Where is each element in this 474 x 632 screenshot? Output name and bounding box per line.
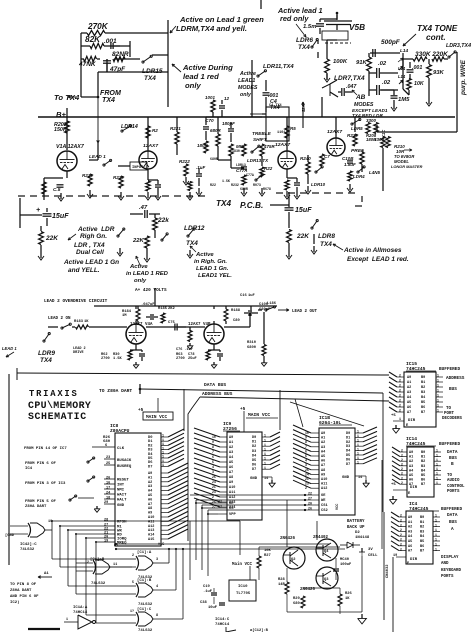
svg-text:A3: A3 xyxy=(407,391,411,395)
svg-text:8: 8 xyxy=(156,614,158,618)
svg-text:1: 1 xyxy=(436,472,438,476)
svg-text:DRIVE: DRIVE xyxy=(73,351,84,355)
capacitor 15uF right xyxy=(285,207,294,209)
svg-text:82K: 82K xyxy=(85,35,101,44)
tube V4B lead2 xyxy=(204,324,224,344)
svg-text:A6: A6 xyxy=(409,479,413,483)
svg-text:16: 16 xyxy=(106,482,110,486)
svg-text:2K2: 2K2 xyxy=(168,307,175,311)
capacitor .047 xyxy=(341,88,343,96)
svg-text:CELL: CELL xyxy=(368,554,378,558)
svg-text:1: 1 xyxy=(399,417,401,421)
svg-text:26: 26 xyxy=(106,477,110,481)
svg-text:82NR: 82NR xyxy=(112,51,129,58)
svg-text:red only: red only xyxy=(280,14,309,23)
wire top stub x261 xyxy=(260,0,262,9)
svg-text:14: 14 xyxy=(358,476,362,480)
cluster right of tube3 xyxy=(306,162,310,174)
wire lead2 main xyxy=(48,326,58,328)
svg-text:100K: 100K xyxy=(333,59,348,65)
svg-text:.047: .047 xyxy=(346,84,357,90)
resistor 82NR xyxy=(113,56,125,61)
svg-text:1001: 1001 xyxy=(205,95,215,100)
svg-text:VPP: VPP xyxy=(229,513,236,517)
svg-text:2: 2 xyxy=(399,394,401,398)
svg-text:C19: C19 xyxy=(203,585,210,589)
svg-text:Main VCC: Main VCC xyxy=(232,562,252,567)
svg-text:1: 1 xyxy=(264,434,266,438)
capacitor .02 b xyxy=(376,85,378,95)
svg-text:5: 5 xyxy=(212,460,214,464)
svg-text:TX4 RED LDR: TX4 RED LDR xyxy=(352,113,383,118)
wedge IC14 xyxy=(392,447,400,452)
svg-text:B1: B1 xyxy=(421,456,425,460)
wire right vertical feedback xyxy=(167,20,169,107)
svg-text:KEYBOARD: KEYBOARD xyxy=(441,569,461,573)
svg-text:A4: A4 xyxy=(407,396,411,400)
svg-text:[C1]:B: [C1]:B xyxy=(90,557,105,562)
svg-text:CS: CS xyxy=(229,507,234,511)
svg-text:A9: A9 xyxy=(229,481,233,485)
ground tone b xyxy=(428,98,430,104)
svg-text:TX4: TX4 xyxy=(40,357,52,364)
svg-text:TO: TO xyxy=(446,407,451,411)
svg-text:LDR12: LDR12 xyxy=(184,225,205,232)
svg-text:R232: R232 xyxy=(231,183,239,187)
svg-text:1: 1 xyxy=(66,617,68,621)
svg-text:3V: 3V xyxy=(368,548,373,552)
svg-text:2: 2 xyxy=(400,543,402,547)
svg-text:R230: R230 xyxy=(347,133,358,138)
svg-text:[C1]:A: [C1]:A xyxy=(137,550,152,555)
svg-text:2: 2 xyxy=(399,404,401,408)
svg-text:a[C12]:B: a[C12]:B xyxy=(250,628,269,632)
svg-text:DIR: DIR xyxy=(410,486,418,490)
svg-text:8: 8 xyxy=(212,445,214,449)
svg-text:A9: A9 xyxy=(321,473,325,477)
battery 3V CELL xyxy=(361,548,363,552)
svg-text:D2: D2 xyxy=(355,531,360,535)
svg-text:D0: D0 xyxy=(346,432,350,436)
vertical bus right1 xyxy=(383,512,385,620)
capacitor C75 mid xyxy=(174,324,176,331)
svg-text:D6: D6 xyxy=(346,458,350,462)
wires battery net xyxy=(259,546,340,548)
svg-text:6800: 6800 xyxy=(247,346,257,350)
svg-text:IC2): IC2) xyxy=(10,600,20,605)
svg-text:RESET: RESET xyxy=(117,479,129,483)
svg-text:18: 18 xyxy=(106,497,110,501)
ram pins left xyxy=(311,432,319,434)
svg-text:R678: R678 xyxy=(263,187,271,191)
svg-text:GND: GND xyxy=(342,476,350,480)
svg-text:L14: L14 xyxy=(400,48,408,53)
svg-text:26: 26 xyxy=(308,507,312,511)
svg-text:V5B: V5B xyxy=(349,23,365,32)
svg-text:1: 1 xyxy=(437,394,439,398)
svg-text:A1: A1 xyxy=(148,476,152,480)
svg-text:A10: A10 xyxy=(148,516,154,520)
svg-text:DIR: DIR xyxy=(408,419,416,423)
svg-text:27: 27 xyxy=(308,497,312,501)
svg-text:1M5: 1M5 xyxy=(398,97,410,103)
svg-text:Active: Active xyxy=(195,252,214,258)
svg-text:22k: 22k xyxy=(157,217,169,224)
ground dual xyxy=(119,248,121,254)
svg-text:B1: B1 xyxy=(421,381,425,385)
svg-text:680: 680 xyxy=(293,602,300,606)
resistor 22K right xyxy=(287,230,292,243)
svg-text:19: 19 xyxy=(393,554,397,558)
svg-text:To TX4: To TX4 xyxy=(54,93,80,102)
svg-text:1: 1 xyxy=(357,434,359,438)
svg-text:93K: 93K xyxy=(433,70,445,76)
wires verticals mid xyxy=(168,549,170,563)
IC15 ground xyxy=(395,425,397,429)
svg-text:TX4: TX4 xyxy=(298,44,310,51)
ram pins right xyxy=(355,432,363,434)
svg-text:BUS: BUS xyxy=(449,456,457,461)
ram addr feed diagonal xyxy=(295,399,303,427)
svg-text:B3: B3 xyxy=(421,465,425,469)
LDR14 switch xyxy=(121,130,123,132)
svg-text:2: 2 xyxy=(400,538,402,542)
regulator IC10 TL7705 xyxy=(229,580,256,601)
svg-text:LDR5: LDR5 xyxy=(351,126,363,131)
svg-text:24: 24 xyxy=(106,492,110,496)
svg-text:2: 2 xyxy=(401,463,403,467)
svg-text:BUFFERED: BUFFERED xyxy=(441,507,462,512)
svg-text:A13: A13 xyxy=(148,529,154,533)
node cluster mid xyxy=(218,159,231,161)
svg-text:R29: R29 xyxy=(293,597,300,601)
cathode lead2 tube1 xyxy=(135,344,137,350)
resistor 93K tone xyxy=(427,65,432,78)
svg-text:Z80A DART: Z80A DART xyxy=(10,589,32,593)
svg-text:A7: A7 xyxy=(229,471,233,475)
svg-text:A: A xyxy=(451,527,454,532)
svg-text:PORT: PORT xyxy=(444,412,454,416)
wire purple bottom xyxy=(377,131,457,133)
svg-text:only: only xyxy=(185,81,201,90)
svg-text:A3: A3 xyxy=(408,530,412,534)
rom wedge right xyxy=(270,432,280,437)
wire left vertical feedback xyxy=(80,33,82,97)
svg-text:2700: 2700 xyxy=(101,357,110,361)
wedge IC4 xyxy=(391,512,399,517)
svg-text:A6: A6 xyxy=(407,406,411,410)
svg-text:Q3: Q3 xyxy=(324,578,329,582)
svg-text:LDR13: LDR13 xyxy=(236,163,246,167)
svg-text:LDR4: LDR4 xyxy=(353,174,365,179)
svg-text:19: 19 xyxy=(104,540,108,544)
resistor R202 plate xyxy=(65,121,70,133)
svg-text:A11: A11 xyxy=(229,491,235,495)
svg-text:D1: D1 xyxy=(252,441,256,445)
svg-text:1: 1 xyxy=(437,384,439,388)
main rail top xyxy=(38,116,455,118)
svg-text:A12: A12 xyxy=(229,496,235,500)
svg-text:9: 9 xyxy=(212,440,214,444)
svg-text:3300: 3300 xyxy=(366,118,376,123)
svg-text:2: 2 xyxy=(401,449,403,453)
svg-text:29: 29 xyxy=(104,501,108,505)
svg-text:3: 3 xyxy=(212,470,214,474)
svg-text:LDR13,TX: LDR13,TX xyxy=(247,158,269,163)
svg-text:[C1]:C: [C1]:C xyxy=(137,607,152,612)
wire plate drops xyxy=(135,306,137,309)
svg-text:L14: L14 xyxy=(398,66,406,71)
arrow cluster x303 xyxy=(302,102,304,128)
svg-text:R188: R188 xyxy=(231,309,241,313)
svg-text:AND: AND xyxy=(441,562,449,566)
svg-text:SCHEMATIC: SCHEMATIC xyxy=(28,411,87,422)
svg-text:A6: A6 xyxy=(148,498,152,502)
svg-text:2: 2 xyxy=(399,379,401,383)
svg-text:INT: INT xyxy=(117,484,125,488)
svg-text:in LEAD 1 RED: in LEAD 1 RED xyxy=(126,271,169,277)
wire cross xyxy=(98,71,168,73)
wire out riser xyxy=(249,313,251,327)
svg-text:TL7705: TL7705 xyxy=(236,592,251,596)
svg-text:Active: Active xyxy=(129,264,148,270)
svg-text:BATTERY: BATTERY xyxy=(347,520,365,524)
svg-text:15uF: 15uF xyxy=(52,212,69,220)
data bus wire xyxy=(140,389,383,393)
svg-text:A4: A4 xyxy=(321,450,325,454)
wedge IC15 xyxy=(389,372,397,377)
resistor 10K tone xyxy=(407,79,411,90)
svg-text:A12: A12 xyxy=(321,487,327,491)
svg-text:R220: R220 xyxy=(113,175,124,180)
wire tube1 cathode xyxy=(44,177,63,179)
svg-text:A11: A11 xyxy=(321,483,327,487)
dashed TX4 PCB boundary xyxy=(18,195,25,197)
svg-text:10: 10 xyxy=(48,520,52,524)
LDR15 switch xyxy=(142,61,144,63)
svg-text:11: 11 xyxy=(113,563,117,567)
resistor R6 xyxy=(188,182,192,191)
svg-text:2: 2 xyxy=(400,519,402,523)
svg-text:LDR3,TX4: LDR3,TX4 xyxy=(446,43,471,49)
svg-text:2: 2 xyxy=(401,467,403,471)
svg-text:.1uF: .1uF xyxy=(196,165,205,170)
bus feed IC4 xyxy=(381,460,383,549)
svg-text:HALT: HALT xyxy=(117,499,127,503)
svg-text:D0: D0 xyxy=(252,436,256,440)
svg-text:.02: .02 xyxy=(382,80,391,86)
svg-text:B3: B3 xyxy=(421,391,425,395)
tube V2B 12AX7 xyxy=(327,138,345,156)
svg-text:2: 2 xyxy=(400,528,402,532)
svg-text:A0: A0 xyxy=(229,436,233,440)
svg-text:.047uF: .047uF xyxy=(141,303,155,307)
svg-text:TX4: TX4 xyxy=(270,105,280,111)
svg-text:B0: B0 xyxy=(421,451,425,455)
svg-text:Active LEAD 1 Gn: Active LEAD 1 Gn xyxy=(63,259,119,266)
wire transistor to rail xyxy=(321,97,323,117)
svg-text:A5: A5 xyxy=(229,461,233,465)
svg-text:680R: 680R xyxy=(210,157,218,161)
svg-text:1: 1 xyxy=(264,457,266,461)
svg-text:AUDIO: AUDIO xyxy=(447,479,460,483)
svg-text:100uF: 100uF xyxy=(340,563,352,567)
svg-text:R2: R2 xyxy=(152,128,158,133)
svg-text:1: 1 xyxy=(435,533,437,537)
svg-text:Dual Cell: Dual Cell xyxy=(76,249,104,256)
svg-text:Z80A DART: Z80A DART xyxy=(25,505,47,509)
svg-text:LEAD1 YEL.: LEAD1 YEL. xyxy=(198,273,232,279)
svg-text:A7: A7 xyxy=(321,464,325,468)
svg-text:FROM PIN 3 OF IC3: FROM PIN 3 OF IC3 xyxy=(25,482,66,486)
purple wire vertical xyxy=(456,52,458,132)
LDR12 TX4 switch xyxy=(187,235,189,237)
svg-text:ADDRESS: ADDRESS xyxy=(446,376,465,381)
svg-text:2: 2 xyxy=(401,453,403,457)
svg-text:B4: B4 xyxy=(420,535,424,539)
svg-text:TX4: TX4 xyxy=(186,240,198,247)
ground tone a xyxy=(393,103,395,109)
svg-text:L14: L14 xyxy=(398,74,406,79)
svg-text:B7: B7 xyxy=(421,411,425,415)
svg-text:TO PIN 8 OF: TO PIN 8 OF xyxy=(10,583,37,587)
data bus vertical xyxy=(183,389,185,431)
svg-text:2: 2 xyxy=(399,384,401,388)
resistor 47NK xyxy=(84,56,97,61)
svg-text:IC42]:C: IC42]:C xyxy=(20,542,37,547)
vertical bus right2 xyxy=(392,557,394,632)
page border left xyxy=(8,374,10,565)
resistor plate2 xyxy=(146,126,150,138)
svg-text:Active in Allmoses: Active in Allmoses xyxy=(343,247,402,254)
ram wedge right xyxy=(363,427,377,433)
svg-text:LEAD 2 ON: LEAD 2 ON xyxy=(48,317,71,321)
svg-text:D7: D7 xyxy=(346,463,350,467)
resistor R310 xyxy=(262,345,266,356)
svg-text:LONGR MASTER: LONGR MASTER xyxy=(391,164,423,169)
rom data collector xyxy=(279,390,281,430)
svg-text:A4: A4 xyxy=(408,535,412,539)
svg-text:PORTS: PORTS xyxy=(441,575,454,579)
svg-text:B6: B6 xyxy=(421,406,425,410)
or gate column C xyxy=(138,612,153,626)
svg-text:LEAD1: LEAD1 xyxy=(238,78,255,84)
wires battery area top xyxy=(239,521,241,555)
svg-text:B0: B0 xyxy=(421,376,425,380)
svg-text:GND: GND xyxy=(250,477,258,481)
ground LDR8 xyxy=(313,246,315,252)
svg-text:A10: A10 xyxy=(229,486,235,490)
svg-text:WE: WE xyxy=(321,499,326,503)
LDR dual cell switch xyxy=(117,235,119,237)
ram wedge left xyxy=(293,425,311,433)
svg-text:LEAD 2 OVERDRIVE CIRCUIT: LEAD 2 OVERDRIVE CIRCUIT xyxy=(44,299,108,304)
svg-text:D2: D2 xyxy=(346,441,350,445)
svg-text:TO: TO xyxy=(447,474,452,478)
svg-text:2: 2 xyxy=(401,458,403,462)
LDR5 switch pair xyxy=(351,123,353,125)
svg-text:C38: C38 xyxy=(200,601,207,605)
svg-text:LDR , TX4: LDR , TX4 xyxy=(74,242,105,249)
cpu pins BUSACK BUSREQ xyxy=(104,458,115,460)
svg-text:91K: 91K xyxy=(356,60,368,66)
address bus wire xyxy=(200,397,389,401)
svg-text:CPU\MEMORY: CPU\MEMORY xyxy=(28,400,91,411)
svg-text:500pF: 500pF xyxy=(381,39,401,46)
svg-text:purp. WIRE: purp. WIRE xyxy=(460,59,467,96)
svg-text:B4: B4 xyxy=(421,469,425,473)
svg-text:C80: C80 xyxy=(233,319,240,323)
svg-text:1: 1 xyxy=(435,523,437,527)
svg-text:BACK UP: BACK UP xyxy=(347,526,365,530)
svg-text:4: 4 xyxy=(156,585,158,589)
cpu addr wedge xyxy=(168,463,188,473)
cpu pin GND29 xyxy=(104,503,115,505)
svg-text:Active During: Active During xyxy=(182,63,233,72)
svg-text:LDR10: LDR10 xyxy=(311,182,326,187)
svg-text:.001: .001 xyxy=(104,38,117,45)
svg-text:1: 1 xyxy=(436,449,438,453)
svg-text:C.5: C.5 xyxy=(53,187,61,192)
svg-text:DATA: DATA xyxy=(447,513,458,518)
svg-text:LDR11,TX4: LDR11,TX4 xyxy=(263,64,294,70)
PRE5 cluster xyxy=(354,117,356,132)
svg-text:22K: 22K xyxy=(45,235,59,242)
svg-text:A1: A1 xyxy=(407,381,411,385)
capacitor .02 a xyxy=(376,68,378,78)
svg-text:2: 2 xyxy=(400,547,402,551)
svg-text:TRIAXIS: TRIAXIS xyxy=(29,389,79,399)
svg-text:2: 2 xyxy=(400,523,402,527)
svg-text:D4: D4 xyxy=(346,450,350,454)
svg-text:A3: A3 xyxy=(229,451,233,455)
wire A+ vertical xyxy=(154,288,156,306)
svg-text:2: 2 xyxy=(399,374,401,378)
svg-text:R28: R28 xyxy=(278,578,285,582)
svg-text:1: 1 xyxy=(437,399,439,403)
svg-text:Active: Active xyxy=(239,71,256,77)
LDR mid switch xyxy=(161,239,163,241)
svg-text:2: 2 xyxy=(399,409,401,413)
svg-text:R22: R22 xyxy=(264,166,273,171)
svg-text:LDR14: LDR14 xyxy=(121,124,138,130)
svg-text:R310: R310 xyxy=(247,341,257,345)
svg-text:1: 1 xyxy=(436,481,438,485)
svg-text:A8: A8 xyxy=(229,476,233,480)
svg-text:475R: 475R xyxy=(263,144,275,149)
resistor 3300 a xyxy=(366,123,370,134)
svg-text:B5: B5 xyxy=(421,474,425,478)
svg-text:1: 1 xyxy=(357,430,359,434)
svg-text:180K: 180K xyxy=(197,143,208,148)
ram bottom pins xyxy=(305,494,319,496)
svg-text:A1: A1 xyxy=(408,521,412,525)
svg-text:2: 2 xyxy=(399,389,401,393)
svg-text:330K 220K: 330K 220K xyxy=(415,51,449,58)
wire lead1 row xyxy=(97,143,99,160)
svg-text:TX4: TX4 xyxy=(144,75,156,82)
svg-text:270K: 270K xyxy=(87,22,109,31)
svg-text:B6: B6 xyxy=(421,479,425,483)
svg-text:D4: D4 xyxy=(252,454,256,458)
svg-text:R183: R183 xyxy=(74,320,84,324)
svg-text:DISPLAY: DISPLAY xyxy=(441,556,459,560)
pot wiper arrows xyxy=(399,66,403,70)
svg-text:A7: A7 xyxy=(408,550,412,554)
svg-text:1: 1 xyxy=(435,547,437,551)
svg-text:DECODERS: DECODERS xyxy=(442,417,462,421)
svg-text:R222: R222 xyxy=(179,159,190,164)
